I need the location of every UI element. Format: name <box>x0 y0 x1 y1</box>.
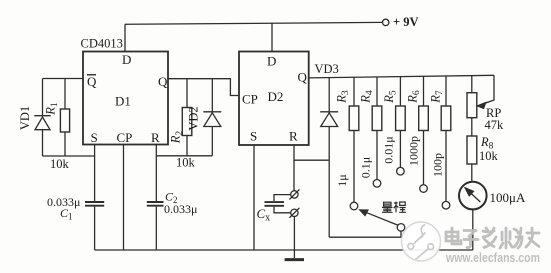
diode VD3 <box>320 78 338 238</box>
svg-text:CD4013: CD4013 <box>81 37 123 51</box>
node contact 0.1u <box>373 180 381 188</box>
svg-text:R1: R1 <box>44 102 61 116</box>
potentiometer RP <box>467 75 494 136</box>
wire +9V top rail <box>125 22 383 24</box>
wire D1 S-pin down through C1 <box>94 145 96 251</box>
label R4 <box>359 90 376 104</box>
pin label S of D1 <box>91 130 98 145</box>
label range 100p <box>431 153 445 177</box>
resistor R2 <box>182 79 192 156</box>
label Cx <box>257 206 271 224</box>
node contact 1u <box>350 202 358 210</box>
svg-text:R5: R5 <box>382 90 399 104</box>
wire R2/VD2 bottom tee <box>156 155 212 157</box>
svg-text:D2: D2 <box>268 89 284 104</box>
svg-text:Cx: Cx <box>257 206 271 224</box>
diode VD2 <box>203 79 221 156</box>
svg-text:S: S <box>250 129 257 144</box>
svg-text:1μ: 1μ <box>335 174 349 186</box>
node +9V terminal <box>383 19 389 25</box>
wire Cx to ground <box>293 217 295 259</box>
label D1 <box>115 94 131 109</box>
svg-text:1000p: 1000p <box>406 136 420 166</box>
label R7 <box>429 90 446 104</box>
label range 1u <box>335 174 349 186</box>
node Cx bottom terminal <box>289 208 299 218</box>
wire D2 R-pin junction <box>294 145 329 191</box>
svg-text:VD1: VD1 <box>18 106 32 130</box>
svg-text:R4: R4 <box>359 90 376 104</box>
resistor R8 <box>467 136 477 182</box>
svg-text:D: D <box>267 54 276 69</box>
pin label Q of D2 <box>298 70 308 85</box>
resistor R7 <box>441 76 451 201</box>
pin label CP of D2 <box>242 92 258 107</box>
diode VD1 <box>34 79 50 157</box>
label 量程 (range) hand-drawn glyphs <box>382 202 406 213</box>
node switch pivot <box>397 224 405 232</box>
watermark text www.elecfans.com <box>445 251 540 265</box>
svg-text:0.033μ: 0.033μ <box>164 202 197 216</box>
resistor R3 <box>349 77 359 202</box>
svg-text:100p: 100p <box>431 153 445 177</box>
svg-text:R2: R2 <box>169 131 186 145</box>
label R2 <box>169 131 186 145</box>
pin label R of D1 <box>151 130 160 145</box>
watermark text 电子发烧友 hand-drawn <box>446 228 539 248</box>
svg-text:www.elecfans.com: www.elecfans.com <box>445 251 540 265</box>
wire switch common return <box>329 231 401 237</box>
node contact 100p <box>442 201 450 209</box>
svg-text:R: R <box>151 130 160 145</box>
wire D1 Qbar output <box>43 78 84 80</box>
flip-flop D1 (CD4013 half) <box>83 52 168 145</box>
label VD3 <box>315 62 339 76</box>
label CD4013 <box>81 37 123 51</box>
svg-text:D1: D1 <box>115 94 131 109</box>
wire D1 R-pin down through C2 <box>155 145 157 251</box>
wire VD1/R1 bottom to S <box>43 155 95 157</box>
pin label D of D2 <box>267 54 276 69</box>
svg-text:Q: Q <box>298 70 308 85</box>
node contact 0.01u <box>397 167 405 175</box>
label 10k of R1 <box>50 157 70 171</box>
label R1 <box>44 102 61 116</box>
label R3 <box>335 90 352 104</box>
svg-text:Q: Q <box>158 74 168 89</box>
label range 0.1u <box>359 157 373 178</box>
label VD2 <box>187 106 201 130</box>
pin label CP of D1 <box>117 130 133 145</box>
meter M 100uA <box>459 182 487 210</box>
pin label D of D1 <box>122 52 131 67</box>
label +9V <box>393 15 419 29</box>
label 10k of R2 <box>176 156 196 170</box>
node Cx top terminal <box>289 189 299 199</box>
label D2 <box>268 89 284 104</box>
pin label Qbar of D1 <box>87 74 97 89</box>
resistor R5 <box>396 77 406 168</box>
switch arm 量程 selector <box>360 210 399 226</box>
svg-text:10k: 10k <box>176 156 196 170</box>
svg-text:+ 9V: + 9V <box>393 15 419 29</box>
wire D2 D-pin drop <box>271 23 273 51</box>
pin label R of D2 <box>289 129 298 144</box>
watermark logo circle <box>402 222 441 261</box>
ground <box>285 258 304 261</box>
svg-text:Q: Q <box>87 74 97 89</box>
capacitor C1 <box>85 202 104 206</box>
label C2 0.033u <box>164 190 197 217</box>
labels layer <box>18 15 526 224</box>
svg-text:0.01μ: 0.01μ <box>381 136 395 163</box>
svg-text:R3: R3 <box>335 90 352 104</box>
svg-text:D: D <box>122 52 131 67</box>
svg-text:CP: CP <box>242 92 258 107</box>
label RP 47k <box>485 106 505 132</box>
resistor R1 <box>60 79 69 157</box>
wire D2 Q output rail <box>309 75 494 78</box>
svg-text:10k: 10k <box>479 149 499 163</box>
label VD1 <box>18 106 32 130</box>
svg-text:47k: 47k <box>485 118 505 132</box>
wire meter to bottom rail <box>472 209 474 250</box>
capacitor Cx (device under test) <box>265 195 291 213</box>
svg-text:0.1μ: 0.1μ <box>359 157 373 178</box>
svg-text:R6: R6 <box>406 90 423 104</box>
svg-text:VD2: VD2 <box>187 106 201 130</box>
wire D1 CP-pin to bottom rail <box>123 145 125 251</box>
label R6 <box>406 90 423 104</box>
wire D2 S-pin to bottom rail <box>253 145 255 250</box>
label range 1000p <box>406 136 420 166</box>
label R5 <box>382 90 399 104</box>
label 100uA <box>490 190 526 205</box>
wire D1 Q to D2 CP <box>168 79 239 96</box>
wire bottom rail <box>95 249 473 251</box>
wire D1 D-pin drop <box>124 24 126 51</box>
flip-flop D2 (CD4013 half) <box>239 52 309 146</box>
svg-text:S: S <box>91 130 98 145</box>
svg-text:VD3: VD3 <box>315 62 339 76</box>
pin label Q of D1 <box>158 74 168 89</box>
capacitor C2 <box>147 202 164 206</box>
node contact 1000p <box>420 185 428 193</box>
resistor R4 <box>372 77 382 180</box>
svg-text:CP: CP <box>117 130 133 145</box>
svg-text:R: R <box>289 129 298 144</box>
svg-text:10k: 10k <box>50 157 70 171</box>
svg-text:100μA: 100μA <box>490 190 526 205</box>
resistor R6 <box>419 76 429 184</box>
label R8 10k <box>479 135 499 163</box>
label 0.033u C1 <box>47 195 80 222</box>
svg-text:R7: R7 <box>429 90 446 104</box>
pin label S of D2 <box>250 129 257 144</box>
label range 0.01u <box>381 136 395 163</box>
